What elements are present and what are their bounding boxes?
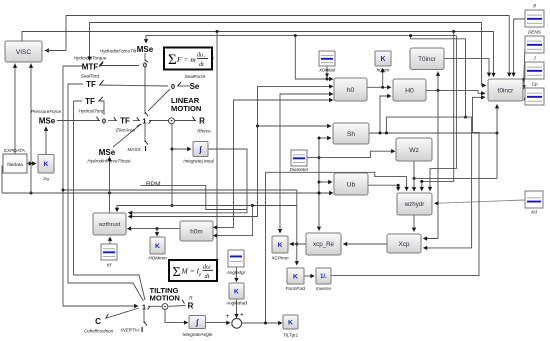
svg-text:Se: Se: [190, 82, 200, 91]
label X0initial: [318, 68, 336, 73]
integrator IntegrateLineal: [193, 142, 208, 157]
constant DENS: [525, 36, 544, 53]
label Kd: [531, 210, 537, 215]
svg-text:HydrostTorq: HydrostTorq: [79, 109, 104, 114]
svg-text:MTF: MTF: [82, 63, 99, 72]
svg-text:Kd: Kd: [531, 210, 537, 215]
svg-text:Rforce: Rforce: [197, 129, 211, 134]
svg-text:F = m: F = m: [176, 55, 196, 64]
label Kf: [107, 263, 112, 268]
gain HOMmm: [150, 237, 165, 254]
bond MSe-top to 0: [145, 53, 148, 62]
label SealForce: [185, 74, 206, 79]
svg-text:C: C: [95, 317, 101, 326]
svg-text:INERTIA: INERTIA: [121, 328, 139, 333]
svg-text:t0incr: t0incr: [498, 87, 514, 94]
svg-text:Wz: Wz: [409, 147, 419, 154]
block h0m: [180, 221, 213, 241]
title LINEAR MOTION: [171, 96, 201, 113]
svg-text:K: K: [380, 56, 385, 63]
svg-text:Ub: Ub: [347, 181, 356, 188]
wire J to t0incr: [522, 71, 526, 89]
label Diameter: [290, 167, 309, 172]
transformer TF ElecArea: [120, 117, 130, 126]
svg-text:xcp_Re: xcp_Re: [313, 241, 335, 248]
source Se SealForce: [190, 82, 200, 91]
label PressureForce: [31, 109, 62, 114]
label Pa: [43, 177, 49, 182]
wire filedata to Pa: [27, 161, 37, 165]
constant Kd: [525, 191, 543, 208]
constant Angledgr: [228, 250, 244, 267]
label DENS: [528, 30, 542, 35]
label HydrodinTorque: [74, 56, 107, 61]
formula box linear: [164, 48, 212, 70]
bond C to tilt 1: [105, 308, 139, 319]
wire h0 input3: [278, 92, 334, 234]
wire IntegrateLineal out: [128, 149, 247, 215]
bond TF-ElecArea to 1: [133, 117, 140, 120]
constant J: [525, 62, 544, 79]
wire jog above T0incr: [409, 34, 467, 119]
wire loop to Xcp in1: [423, 90, 438, 240]
node sum circle: [232, 318, 242, 328]
svg-text:Diameter: Diameter: [290, 167, 309, 172]
svg-text:HOMmm: HOMmm: [148, 256, 167, 261]
block h0: [334, 78, 367, 101]
wire h0m input2: [213, 206, 253, 238]
svg-text:IntegrateAngle: IntegrateAngle: [183, 332, 213, 337]
wire X0initial to h0: [325, 66, 329, 78]
svg-text:Cp: Cp: [532, 82, 538, 87]
wire to IntegrateLineal: [172, 147, 192, 151]
wire T0incr out to t0incr: [443, 59, 491, 77]
hook MTF: [100, 63, 104, 67]
block wzthrust: [93, 213, 126, 235]
wire FormFact to Inverse: [304, 274, 315, 278]
bond Se to 0b: [177, 82, 190, 86]
junction 0 Se: [171, 82, 175, 91]
label Angledgr: [226, 270, 246, 275]
bond 0c to TF-ElecArea: [108, 117, 117, 120]
wire Sh out: [369, 132, 499, 135]
svg-text:H0: H0: [405, 87, 414, 94]
bond 0-top to 1: [145, 67, 148, 116]
svg-text:K: K: [293, 273, 298, 280]
wire to MSe-Thrust: [107, 157, 111, 214]
wire to Wz: [319, 149, 396, 158]
block wzhydr: [397, 193, 432, 215]
svg-text:Angledgr: Angledgr: [226, 270, 246, 275]
transformer TF SealTorq: [86, 80, 96, 89]
label MASS: [127, 147, 141, 152]
label Coheffcushion: [84, 329, 114, 334]
bond 1 to I MASS: [145, 124, 148, 145]
block T0incr: [410, 48, 444, 70]
inertia I INERTIA: [141, 325, 143, 334]
svg-text:T0incr: T0incr: [418, 56, 437, 63]
svg-text:RPM: RPM: [146, 181, 161, 188]
label Cp: [532, 82, 538, 87]
svg-text:Σ: Σ: [173, 265, 181, 280]
wire h0 input4: [213, 98, 334, 230]
source MSe PressureForce: [39, 117, 56, 126]
title TILTING MOTION: [150, 286, 180, 303]
wire loop to Xcp in2: [385, 117, 472, 250]
bond MSe-Thrust diag to 1: [113, 124, 141, 147]
label HOMmm: [148, 256, 167, 261]
svg-text:MSe: MSe: [39, 117, 56, 126]
wire branch to HOMmm: [155, 229, 159, 237]
gain XCPmm: [272, 236, 288, 253]
wire Sh branch to H0 in2: [379, 94, 392, 135]
wire rail3 VISC-top to t0incr: [22, 30, 496, 77]
gain Angledrad: [229, 283, 244, 299]
label TILTgr1: [283, 333, 299, 338]
wire rail1 to VISC and t0incr: [45, 16, 512, 78]
bond MTF to 0-top: [99, 61, 139, 65]
transformer TF HydrostTorq: [85, 97, 95, 106]
svg-text:TF: TF: [85, 97, 95, 106]
wire h0m to wzthrust: [127, 226, 180, 230]
bond TF SealTorq to tilt 1-junction: [68, 84, 144, 301]
svg-text:SealTorq: SealTorq: [81, 74, 100, 79]
gain h0trim: [375, 51, 391, 66]
label INERTIA: [121, 328, 139, 333]
wire x268 vertical: [265, 172, 267, 323]
bond 0b diag to 1: [148, 89, 170, 111]
svg-text:Inverse: Inverse: [316, 286, 332, 291]
label Inverse: [316, 286, 332, 291]
svg-text:ElecArea: ElecArea: [116, 128, 135, 133]
bond TF HydrostTorq to tilt 1-junction: [74, 101, 146, 300]
junction 0 center: [102, 117, 106, 126]
block xcp_Re: [306, 233, 341, 255]
wire rail y190: [62, 189, 297, 206]
wire Pa to MSe PressureForce: [44, 127, 48, 155]
svg-text:M = I: M = I: [181, 267, 200, 276]
svg-text:Coheffcushion: Coheffcushion: [84, 329, 114, 334]
label IntegrateAngle: [183, 332, 213, 337]
label h0trim: [377, 68, 390, 73]
bond TF-SealTorq to 0b: [99, 81, 168, 86]
wire Sh input1: [258, 124, 332, 128]
wire rail y193: [2, 191, 334, 195]
svg-text:+: +: [226, 313, 230, 320]
label XCPmm: [270, 256, 288, 261]
svg-text:HydrodinForceThrust: HydrodinForceThrust: [87, 159, 131, 164]
wire tilt node to IntegrateAngle: [165, 310, 188, 325]
label Angledrad: [225, 301, 247, 306]
wire omega rail: [117, 204, 297, 207]
wire xcp node to XCPmm: [289, 242, 306, 246]
wire h0 to H0: [367, 85, 392, 89]
svg-text:DENS: DENS: [528, 30, 542, 35]
svg-text:R: R: [188, 302, 194, 311]
resistor R tilting: [188, 302, 194, 311]
label ff: [533, 4, 536, 9]
wire rail2 MTF to t0incr: [87, 23, 486, 88]
label EXPDATA: [4, 148, 25, 153]
wire Kd to wzhydr: [434, 200, 525, 206]
block Sh: [333, 123, 369, 144]
label ElecArea: [116, 128, 135, 133]
wire rail4 MSe to wzhydr: [144, 34, 457, 191]
wire rail y193 branch to VISC: [29, 64, 33, 195]
formula box tilting: [169, 260, 217, 281]
wire rail3 branch to wzhydr: [420, 32, 454, 192]
wire Angledgr to Angledrad: [234, 267, 238, 282]
wire Ub to wzhydr: [368, 184, 400, 192]
wire x268 tilt net: [266, 172, 409, 191]
label Rforce: [197, 129, 211, 134]
block filedata: [3, 154, 27, 173]
constant ff: [525, 10, 544, 27]
svg-text:1: 1: [142, 117, 146, 126]
svg-text:MASS: MASS: [127, 147, 141, 152]
wire Kf to wzthrust: [108, 237, 112, 245]
wire h0 input2: [128, 84, 334, 219]
node tilt circle: [162, 304, 168, 310]
svg-text:TF: TF: [86, 80, 96, 89]
label RPM: [146, 181, 161, 188]
svg-text:0: 0: [171, 82, 175, 91]
svg-text:0: 0: [102, 117, 106, 126]
label plus right: [240, 312, 244, 319]
bond 1 to velocity node: [149, 121, 169, 124]
svg-text:EXPDATA: EXPDATA: [4, 148, 25, 153]
label SealTorq: [81, 74, 100, 79]
wire filedata loop to rail y193: [2, 166, 3, 193]
wire Diameter to rail: [307, 157, 320, 159]
block Ub: [334, 173, 368, 195]
svg-text:dω: dω: [203, 264, 211, 271]
svg-text:MOTION: MOTION: [171, 104, 201, 113]
bond node to R: [175, 117, 197, 121]
svg-text:h0trim: h0trim: [377, 68, 390, 73]
svg-text:X0initial: X0initial: [318, 68, 336, 73]
constant Diameter: [291, 150, 307, 166]
svg-text:K: K: [234, 288, 239, 295]
source MSe HydrodinForceTilt: [137, 45, 154, 54]
svg-text:MSe: MSe: [137, 45, 154, 54]
svg-text:1: 1: [142, 303, 146, 312]
label IntegrateLineal: [183, 159, 214, 164]
label J: [532, 56, 536, 61]
junction 1 linear: [142, 117, 146, 126]
wire rail to Ub input1: [319, 180, 333, 184]
svg-text:I: I: [141, 325, 143, 334]
svg-text:h0m: h0m: [190, 228, 202, 235]
block H0: [393, 79, 426, 101]
wire staircase a: [141, 186, 248, 210]
svg-text:MSe: MSe: [99, 148, 116, 157]
wire Wz branch to t0incr bottom: [413, 104, 500, 180]
wire IntegrateAngle to sum: [206, 321, 231, 325]
wire wzhydr to Xcp: [412, 215, 416, 232]
bond MTF to tilt 1-junction: [63, 66, 139, 308]
svg-text:wzhydr: wzhydr: [404, 201, 425, 208]
junction 0 top: [143, 61, 147, 70]
svg-text:HydrodinTorque: HydrodinTorque: [74, 56, 107, 61]
resistor R linear: [199, 117, 205, 126]
wire DENS to t0incr: [522, 46, 526, 82]
wire ff to t0incr: [511, 19, 525, 77]
wire omega down to xcp node: [295, 206, 299, 266]
svg-text:Xcp: Xcp: [398, 241, 409, 248]
svg-text:Σ: Σ: [168, 52, 177, 68]
wire filedata to VISC: [13, 64, 17, 155]
wire Angledrad to sum: [234, 299, 238, 318]
wire Wz to wzhydr: [412, 161, 416, 192]
wire velocity node down: [171, 124, 174, 207]
bond tilt 1 to INERTIA I: [144, 310, 147, 326]
block VISC: [5, 41, 42, 62]
wire omega to wzthrust top: [115, 206, 119, 213]
label pi tilt: [189, 296, 193, 302]
source MSe Thrust: [99, 148, 116, 157]
gain TILTgr1: [283, 315, 298, 329]
svg-text:Kf: Kf: [107, 263, 112, 268]
bond node to tilt R: [168, 300, 185, 307]
label HydrodinForceTilt: [100, 49, 137, 54]
hook TF SealTorq: [100, 80, 104, 84]
transformer MTF: [82, 63, 99, 72]
constant Kf: [101, 244, 117, 260]
svg-text:dt: dt: [199, 62, 204, 68]
gain Inverse: [316, 268, 331, 284]
block t0incr: [488, 79, 523, 101]
capacitor C cushion: [95, 317, 101, 326]
svg-text:h0: h0: [347, 87, 355, 94]
svg-text:MOTION: MOTION: [150, 294, 180, 303]
svg-text:VISC: VISC: [16, 49, 31, 56]
svg-text:Angledrad: Angledrad: [225, 301, 247, 306]
wire branch to h0trim: [381, 68, 385, 87]
wire Xcp to xcp_Re: [343, 242, 387, 246]
label HydrostTorq: [79, 109, 104, 114]
label HydrodinForceThrust: [87, 159, 131, 164]
svg-text:K: K: [288, 319, 293, 326]
wire vertical rail A: [210, 32, 219, 273]
inertia I MASS: [144, 144, 146, 153]
svg-text:XCPmm: XCPmm: [270, 256, 288, 261]
svg-text:0: 0: [143, 61, 147, 70]
label FormFact: [286, 286, 306, 291]
wire h0 input1: [295, 36, 333, 82]
svg-text:du₁: du₁: [197, 53, 205, 59]
svg-text:TILTgr1: TILTgr1: [283, 333, 299, 338]
svg-text:Pa: Pa: [43, 177, 49, 182]
constant Cp: [525, 88, 544, 105]
wire branch to T0incr bottom: [436, 72, 440, 91]
svg-text:I: I: [144, 144, 146, 153]
svg-text:IntegrateLineal: IntegrateLineal: [183, 159, 214, 164]
integrator IntegrateAngle: [189, 316, 206, 329]
svg-text:SealForce: SealForce: [185, 74, 206, 79]
wire Sh input2: [319, 136, 332, 140]
wire sum to TILTgr1: [242, 321, 283, 325]
gain Pa: [38, 155, 54, 174]
wire diameter rail: [317, 137, 321, 232]
wire H0 out: [426, 89, 486, 96]
node velocity circle: [169, 118, 175, 124]
constant X0initial: [319, 51, 335, 66]
wire Inverse out loop: [331, 95, 486, 276]
svg-text:dt: dt: [205, 273, 210, 280]
block Wz: [396, 138, 432, 161]
svg-text:HydrodinForceTilt: HydrodinForceTilt: [100, 49, 137, 54]
block Xcp: [387, 234, 421, 253]
gain FormFact: [287, 268, 304, 284]
svg-text:FormFact: FormFact: [286, 286, 306, 291]
bond TF-HydrostTorq elbow to 0c: [98, 97, 104, 115]
bond tilt 1 to node: [148, 306, 162, 309]
label plus left: [226, 313, 230, 320]
svg-text:wzthrust: wzthrust: [98, 222, 121, 228]
svg-text:K: K: [155, 243, 160, 250]
svg-text:PressureForce: PressureForce: [31, 109, 62, 114]
svg-text:1/.: 1/.: [320, 274, 327, 280]
svg-text:TF: TF: [120, 117, 130, 126]
svg-text:K: K: [44, 161, 49, 168]
junction 1 tilting: [142, 303, 146, 312]
svg-text:K: K: [278, 242, 283, 249]
svg-text:+: +: [240, 312, 244, 319]
wire Cp to t0incr: [524, 97, 528, 103]
bond MSe-PressureForce to 0c: [57, 117, 100, 121]
svg-text:R: R: [199, 117, 205, 126]
svg-text:Sh: Sh: [347, 131, 356, 138]
svg-text:filedata: filedata: [7, 162, 23, 168]
